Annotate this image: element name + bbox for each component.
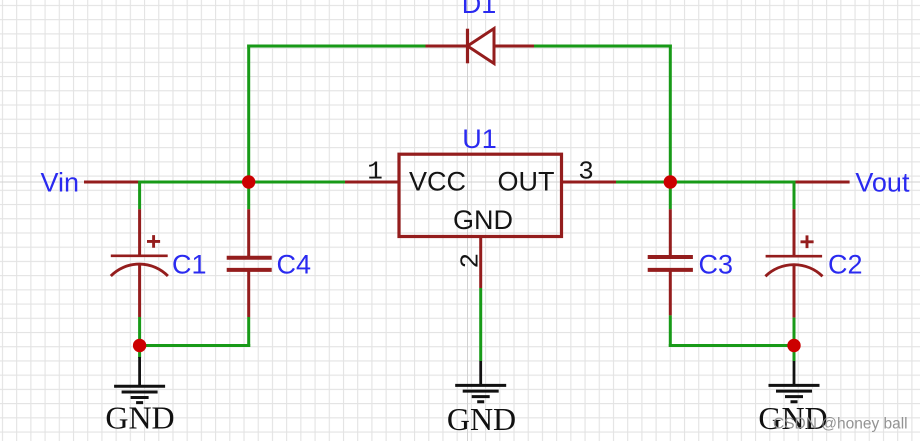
- svg-text:VCC: VCC: [409, 166, 466, 196]
- wire bottom left horizontal (green): [140, 344, 251, 347]
- capacitor C1 bottom lead (dark red): [138, 266, 141, 318]
- diode D1 triangle: [468, 29, 495, 64]
- wire top loop right vertical (green): [669, 45, 672, 184]
- svg-text:1: 1: [367, 156, 383, 186]
- svg-text:C1: C1: [172, 250, 207, 280]
- wire Vout lead (dark red): [794, 181, 850, 184]
- crosshair horizontal line: [0, 181, 920, 183]
- wire top loop left vertical (green): [247, 45, 250, 184]
- wire ground right stub (green): [793, 346, 796, 362]
- svg-text:OUT: OUT: [498, 166, 555, 196]
- svg-text:CSDN @honey ball: CSDN @honey ball: [773, 415, 908, 432]
- capacitor C2 plus sign: [801, 235, 814, 248]
- capacitor C2 bottom plate arc: [765, 265, 822, 277]
- capacitor C1 plus sign: [147, 235, 160, 248]
- capacitor C2 bottom lead (dark red): [793, 266, 796, 318]
- svg-text:2: 2: [456, 253, 486, 269]
- wire GND middle stub (green): [479, 288, 482, 361]
- capacitor C3 top plate: [648, 255, 693, 259]
- svg-text:GND: GND: [447, 401, 516, 437]
- ground symbol middle bars: [455, 385, 506, 401]
- capacitor C2 top plate: [766, 255, 823, 258]
- pin 2 wire of U1 (dark red): [479, 237, 482, 289]
- junction node right-bottom: [787, 339, 800, 352]
- svg-text:D1: D1: [462, 0, 497, 19]
- wire C4 bottom stub (green): [247, 317, 250, 347]
- wire rail left (green): [140, 181, 347, 184]
- capacitor C1 bottom plate arc: [111, 264, 168, 276]
- junction node left-bottom: [133, 339, 146, 352]
- wire C3 bottom stub (green): [669, 315, 672, 347]
- regulator U1 body rectangle: [399, 154, 562, 236]
- wire C1 bottom stub (green): [138, 317, 141, 346]
- svg-text:Vin: Vin: [41, 167, 80, 197]
- svg-text:U1: U1: [462, 124, 497, 154]
- wire top loop right horizontal (green): [534, 45, 672, 48]
- capacitor C3 bottom lead (dark red): [669, 270, 672, 316]
- diode D1 cathode bar: [466, 29, 469, 64]
- capacitor C4 bottom lead (dark red): [247, 270, 250, 317]
- svg-text:C3: C3: [699, 250, 734, 280]
- capacitor C4 top lead (dark red): [247, 209, 250, 258]
- wire Vin lead (dark red): [84, 181, 141, 184]
- wire bottom right horizontal (green): [669, 344, 794, 347]
- svg-text:C4: C4: [277, 250, 312, 280]
- svg-text:C2: C2: [828, 250, 863, 280]
- wire C2 bottom stub (green): [793, 318, 796, 346]
- ground symbol middle pin line: [479, 361, 482, 385]
- ground symbol right pin line: [793, 361, 796, 385]
- junction node right-top: [664, 175, 677, 188]
- capacitor C3 top lead (dark red): [669, 209, 672, 257]
- wire C1 top stub (green): [138, 181, 141, 210]
- wire ground left stub (green): [138, 346, 141, 359]
- capacitor C3 bottom plate: [648, 268, 693, 272]
- diode D1 left lead (dark red): [426, 45, 468, 48]
- capacitor C2 top lead (dark red): [793, 209, 796, 257]
- capacitor C4 bottom plate: [227, 268, 272, 272]
- svg-text:Vout: Vout: [855, 167, 910, 197]
- pin 1 wire of U1 (dark red): [345, 181, 399, 184]
- ground symbol right bars: [769, 385, 820, 401]
- wire C3 top stub (green): [669, 182, 672, 209]
- ground symbol left pin line: [138, 357, 141, 386]
- diode D1 right lead (dark red): [494, 45, 536, 48]
- svg-text:3: 3: [578, 157, 594, 187]
- svg-text:GND: GND: [105, 399, 174, 435]
- svg-text:GND: GND: [453, 205, 513, 235]
- capacitor C1 top plate: [111, 255, 168, 258]
- capacitor C4 top plate: [227, 256, 272, 260]
- wire C4 top stub (green): [247, 182, 250, 209]
- capacitor C1 top lead (dark red): [138, 209, 141, 257]
- wire C2 top stub (green): [793, 181, 796, 210]
- pin 3 wire of U1 (dark red): [562, 181, 618, 184]
- crosshair vertical line: [467, 0, 469, 441]
- wire rail right (green): [616, 181, 796, 184]
- ground symbol left bars: [114, 386, 165, 402]
- wire top loop left horizontal (green): [247, 45, 427, 48]
- junction node left-top: [242, 175, 255, 188]
